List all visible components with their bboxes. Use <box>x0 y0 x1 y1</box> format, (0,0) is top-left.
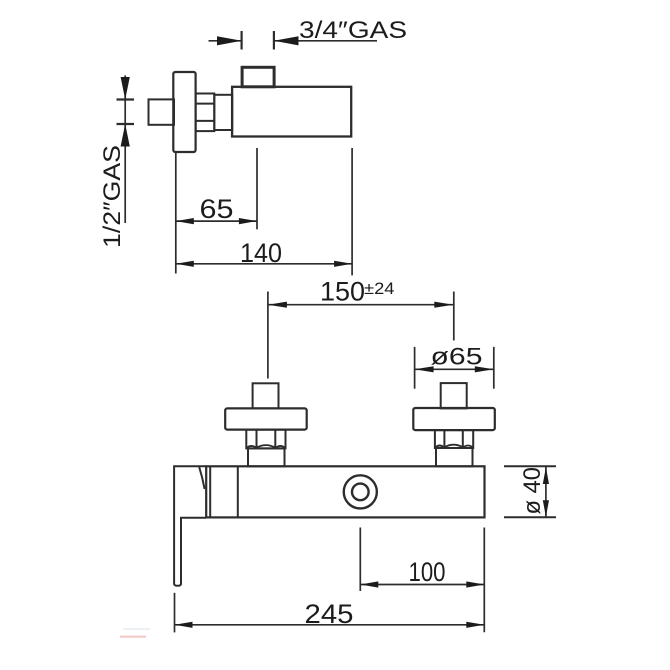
dim line 100 <box>360 584 484 586</box>
svg-text:140: 140 <box>240 238 282 268</box>
wall plate <box>173 72 195 152</box>
hex nut facet lines <box>196 103 215 105</box>
dim line 140 <box>176 263 352 265</box>
svg-text:150: 150 <box>320 277 365 307</box>
vertical dim line <box>545 467 547 517</box>
left end cap line pair <box>209 466 211 517</box>
150 arrow right <box>434 302 453 308</box>
right hex nut facets <box>443 430 445 448</box>
dim line left tail <box>209 40 242 42</box>
extension line right <box>453 292 455 341</box>
main body front <box>206 466 484 517</box>
mixer body (side view) <box>232 87 351 137</box>
left flange <box>225 408 307 429</box>
140 arrow left <box>176 261 194 267</box>
ø40 arrow down <box>543 500 549 517</box>
dim line right leader <box>274 40 377 42</box>
65 arrow left <box>176 218 194 224</box>
arrow pointing left at right tick <box>274 36 299 45</box>
svg-text:ø 40: ø 40 <box>519 467 546 515</box>
tick right <box>273 31 275 50</box>
140 arrow right <box>334 261 352 267</box>
svg-text:ø65: ø65 <box>431 344 483 371</box>
left hex nut <box>246 430 285 449</box>
extension line right (body end) <box>351 148 353 275</box>
lever handle <box>174 466 206 586</box>
collar <box>214 95 232 130</box>
extension line right <box>493 347 495 389</box>
tick bottom <box>117 123 135 125</box>
outlet circle inner <box>352 484 369 501</box>
hex nut (side view) <box>196 94 215 132</box>
tick left <box>241 31 243 50</box>
svg-text:3/4″GAS: 3/4″GAS <box>299 17 407 44</box>
left pipe stub <box>253 383 279 408</box>
extension line left (lever) <box>174 593 176 633</box>
100 arrow right <box>466 581 484 587</box>
right pipe stub <box>441 383 467 408</box>
245 arrow left <box>175 622 193 628</box>
3/4" outlet square <box>242 67 274 87</box>
245 arrow right <box>466 622 484 628</box>
right column <box>436 448 473 466</box>
extension line left <box>267 292 269 379</box>
arrow pointing up at bottom tick <box>121 124 130 147</box>
vertical leader line <box>124 75 126 223</box>
watermark remnant (pink dash) <box>120 636 146 638</box>
left hex nut chamfer arcs <box>246 445 285 448</box>
extension line middle (outlet axis) <box>256 148 258 229</box>
arrow pointing right at left tick <box>217 36 242 45</box>
dim line 65 <box>176 220 257 222</box>
extension line left <box>414 347 416 389</box>
svg-text:±24: ±24 <box>364 280 395 298</box>
ø65 arrow right <box>475 366 494 372</box>
left column <box>248 448 285 466</box>
dim line 245 <box>175 624 485 626</box>
ø65 arrow left <box>415 366 434 372</box>
right hex nut chamfer arcs <box>435 445 473 448</box>
extension line middle (circle axis) <box>359 528 361 592</box>
extension line left (plate face) <box>175 153 177 274</box>
100 arrow left <box>360 581 378 587</box>
left hex nut facets <box>256 430 258 449</box>
dim line 150 <box>268 304 453 306</box>
svg-text:100: 100 <box>409 557 446 587</box>
arrow pointing down at top tick <box>121 77 130 100</box>
outlet circle outer <box>344 475 377 508</box>
dim line ø65 <box>415 368 494 370</box>
end cap line <box>237 466 239 517</box>
tick bottom <box>504 516 556 518</box>
svg-text:65: 65 <box>200 194 234 224</box>
ø40 arrow up <box>543 467 549 484</box>
right hex nut <box>435 430 473 448</box>
tick top <box>117 98 135 100</box>
65 arrow right <box>239 218 257 224</box>
extension line right (body end) <box>483 528 485 633</box>
svg-text:245: 245 <box>305 599 354 629</box>
150 arrow left <box>268 302 287 308</box>
lever diagonal <box>199 467 204 489</box>
right flange <box>413 408 495 430</box>
svg-text:1/2″GAS: 1/2″GAS <box>99 145 126 248</box>
wall pipe 1/2" stub <box>149 99 175 124</box>
tick top <box>504 465 556 467</box>
